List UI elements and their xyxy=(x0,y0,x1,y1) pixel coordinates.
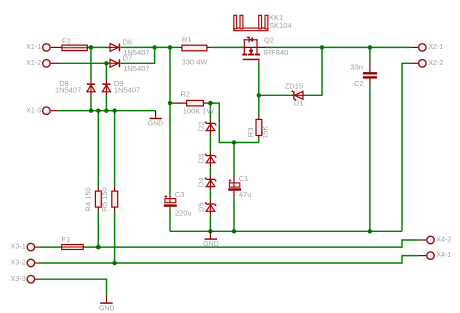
svg-text:1N5407: 1N5407 xyxy=(114,85,140,94)
wire R5 lead top xyxy=(114,187,116,192)
wire X1-2 row to D7 xyxy=(61,62,110,64)
diode D9 xyxy=(102,79,140,95)
wire R1 lead left xyxy=(178,46,182,48)
wire X4-1 pin xyxy=(418,255,426,257)
resistor R4 xyxy=(84,187,102,211)
connector pad X3-1 xyxy=(11,242,35,251)
wire X4-2 pin xyxy=(418,239,426,241)
junction after fuse F2 xyxy=(89,45,94,50)
ground symbol GND middle rail xyxy=(203,231,219,248)
svg-text:X2-1: X2-1 xyxy=(428,42,443,51)
svg-text:47u: 47u xyxy=(239,190,252,199)
junction R2 right / zener chain xyxy=(208,101,213,106)
svg-text:D3: D3 xyxy=(197,154,206,164)
junction chain bottom / GND rail xyxy=(208,229,212,233)
junction R4 on X3-1 rail xyxy=(96,245,101,250)
junction D1 branch on top rail xyxy=(320,45,324,49)
connector pad X3-3 xyxy=(11,274,35,283)
svg-text:X3-2: X3-2 xyxy=(11,258,26,267)
wire R2 lead left xyxy=(170,102,187,104)
connector pad X1-1 xyxy=(26,42,50,51)
wire C2 top lead xyxy=(369,63,371,72)
junction D8 on X1-3 rail xyxy=(89,109,93,113)
connector pad X2-2 xyxy=(419,58,444,67)
ground symbol GND near X3-3 xyxy=(99,296,115,313)
wire R3 bottom lead xyxy=(258,136,260,140)
mosfet Q2 IRF840 xyxy=(242,36,288,61)
zener diode D3 xyxy=(197,154,217,164)
wire C2 bottom lead xyxy=(369,79,371,86)
wire D9 bottom lead xyxy=(105,92,107,96)
wire C1 bottom lead xyxy=(233,191,235,198)
zener diode D5 xyxy=(197,202,217,212)
zener diode D4 xyxy=(197,178,217,188)
capacitor C2 xyxy=(351,62,378,88)
fuse F2 xyxy=(62,37,87,51)
wire D3-D4 link xyxy=(209,163,211,167)
svg-text:SK104: SK104 xyxy=(269,21,292,30)
wire X2-1 pin xyxy=(411,46,419,48)
svg-text:C1: C1 xyxy=(239,174,249,183)
svg-text:33n: 33n xyxy=(351,62,364,71)
svg-text:220u: 220u xyxy=(175,208,192,217)
wire C3 top lead xyxy=(169,196,171,199)
wire C1 to bottom rail xyxy=(233,197,235,231)
svg-text:C3: C3 xyxy=(175,190,185,199)
wire D8 column top xyxy=(90,47,92,80)
svg-text:15K: 15K xyxy=(260,126,269,139)
wire bottom rail y231 xyxy=(170,230,402,232)
resistor R1 xyxy=(182,35,209,67)
wire R5 column top xyxy=(114,111,116,187)
wire top rail D6 cathode to R1 xyxy=(120,46,178,48)
svg-text:R5 150: R5 150 xyxy=(100,187,109,211)
wire R3 bottom to 142-row xyxy=(258,139,260,142)
wire X3-2 rail to X4-1 jog xyxy=(38,256,418,263)
zener diode D2 xyxy=(197,122,217,132)
wire R5 lead bottom xyxy=(114,207,116,212)
wire C1 top lead xyxy=(233,176,235,183)
junction R5 on X1-3 rail xyxy=(112,109,116,113)
wire R4 column bottom xyxy=(97,212,99,248)
svg-text:GND: GND xyxy=(203,241,219,248)
junction R2/C3 column on top rail xyxy=(168,45,172,49)
wire D9 column top xyxy=(105,63,107,80)
wire X2-2 pin xyxy=(411,62,419,64)
wire X3-1 pin xyxy=(35,246,38,248)
wire R4 column top xyxy=(97,111,99,187)
connector pad X1-2 xyxy=(26,58,50,67)
wire column x170 R2 row down to C3 xyxy=(169,103,171,195)
wire zener chain top xyxy=(209,103,211,119)
svg-text:X1-3: X1-3 xyxy=(26,105,41,114)
wire D2 top lead xyxy=(209,120,211,123)
wire C3 bottom lead xyxy=(169,207,171,211)
wire D1 cathode lead xyxy=(303,94,306,96)
polarized capacitor C1 xyxy=(228,174,251,199)
wire R5 column bottom xyxy=(114,212,116,263)
svg-text:R1: R1 xyxy=(182,35,192,44)
junction D9 on X1-3 rail xyxy=(104,109,108,113)
wire C2 column from top rail xyxy=(369,47,371,62)
wire R4 lead top xyxy=(97,187,99,192)
wire D5 bottom to rail xyxy=(209,211,211,215)
svg-text:R4 150: R4 150 xyxy=(84,187,93,211)
svg-text:X4-1: X4-1 xyxy=(436,250,451,259)
resistor R2 xyxy=(181,90,215,116)
connector pad X3-2 xyxy=(11,258,35,267)
junction C2 on top rail xyxy=(368,45,372,49)
diode D6 xyxy=(110,38,149,57)
svg-text:X3-1: X3-1 xyxy=(11,242,26,251)
svg-text:D4: D4 xyxy=(197,178,206,188)
svg-text:IRF840: IRF840 xyxy=(264,48,289,57)
connector pad X4-2 xyxy=(427,235,452,244)
diode D8 xyxy=(55,79,95,95)
ground symbol GND near X1-3 xyxy=(148,111,164,128)
heatsink KK1 SK104 xyxy=(234,13,292,31)
svg-text:GND: GND xyxy=(148,121,164,128)
wire D1 to corner up to top rail xyxy=(306,47,322,95)
wire D2-D3 link xyxy=(209,131,211,135)
wire C2 to bottom rail xyxy=(369,86,371,231)
svg-text:X1-1: X1-1 xyxy=(26,42,41,51)
svg-text:F2: F2 xyxy=(62,37,71,46)
wire X3-2 pin xyxy=(35,262,38,264)
wire D1 anode lead xyxy=(291,94,293,96)
wire X1-3 pin xyxy=(51,110,57,112)
wire D8 to X1-3 rail xyxy=(90,95,92,110)
wire R4 lead bottom xyxy=(97,207,99,212)
wire node to R3 top xyxy=(258,95,260,115)
svg-text:D1: D1 xyxy=(294,98,304,107)
svg-text:R3: R3 xyxy=(246,128,255,138)
junction C1 bottom rail xyxy=(232,229,236,233)
wire node to D1 anode xyxy=(259,94,291,96)
connector pad X4-1 xyxy=(427,250,452,259)
wire D9 to X1-3 rail xyxy=(105,95,107,110)
junction R2 left xyxy=(168,101,172,105)
wire X3-3 pin xyxy=(35,278,38,280)
svg-text:100K 1W: 100K 1W xyxy=(183,107,215,116)
wire Q2 to X2-1 xyxy=(266,46,411,48)
junction C1 top xyxy=(232,140,236,144)
wire Q2 gate drop red xyxy=(258,60,260,63)
svg-text:X4-2: X4-2 xyxy=(436,235,451,244)
wire R2 lead right xyxy=(203,102,210,104)
wire X1-1 pin to fuse xyxy=(51,46,62,48)
wire C1 column top xyxy=(233,143,235,176)
svg-text:D6: D6 xyxy=(123,38,133,47)
polarized capacitor C3 xyxy=(164,190,192,217)
connector pad X1-3 xyxy=(26,105,50,114)
junction D7 branch on top rail xyxy=(152,45,156,49)
wire X1-2 pin xyxy=(51,62,61,64)
svg-text:1N5407: 1N5407 xyxy=(123,64,149,73)
wire D8 bottom lead xyxy=(90,92,92,96)
svg-text:D2: D2 xyxy=(197,122,206,132)
resistor R3 xyxy=(246,119,269,139)
junction R5 on X3-2 rail xyxy=(112,261,116,265)
connector pad X2-1 xyxy=(419,42,444,51)
wire R2 right dot to corner down xyxy=(210,103,258,142)
svg-text:X1-2: X1-2 xyxy=(26,58,41,67)
wire F1 to X4-2 jog xyxy=(83,240,418,247)
junction R4 on X1-3 rail xyxy=(96,109,100,113)
wire vertical column x170 top rail to R2 row xyxy=(169,47,171,103)
svg-text:D7: D7 xyxy=(123,53,133,62)
svg-text:R2: R2 xyxy=(181,90,191,99)
svg-text:C2: C2 xyxy=(354,79,364,88)
resistor R5 xyxy=(100,187,118,211)
wire D4-D5 link xyxy=(209,187,211,191)
node gate/D1/R3 xyxy=(257,93,261,97)
wire red through Q2 xyxy=(244,46,265,48)
wire R1 lead right xyxy=(207,46,211,48)
wire D8 anode lead xyxy=(90,80,92,84)
wire D9 anode lead xyxy=(105,80,107,84)
svg-text:1N5407: 1N5407 xyxy=(55,85,81,94)
svg-text:X3-3: X3-3 xyxy=(11,274,26,283)
svg-text:330 4W: 330 4W xyxy=(182,57,209,66)
wire R1 to Q2 gate-rail xyxy=(211,46,245,48)
svg-text:Q2: Q2 xyxy=(264,36,274,45)
fuse F1 xyxy=(62,235,84,249)
junction C2 bottom rail xyxy=(368,229,372,233)
wire X3-1 to fuse F1 xyxy=(38,246,62,248)
wire top rail from fuse F2 to D6 anode xyxy=(87,46,110,48)
wire X2-2 to drop corner xyxy=(402,63,411,231)
diode D7 xyxy=(110,53,149,73)
junction D9 on X1-2 wire xyxy=(104,61,108,65)
svg-text:D5: D5 xyxy=(197,202,206,212)
svg-text:X2-2: X2-2 xyxy=(428,58,443,67)
zener diode D1 ZD15 xyxy=(285,81,304,107)
svg-text:GND: GND xyxy=(99,305,115,312)
wire X1-3 rail to GND xyxy=(57,110,156,112)
wire D7 cathode to corner up to top rail xyxy=(120,47,154,63)
wire C3 to bottom rail xyxy=(169,211,171,232)
wire Q2 gate drop to node xyxy=(258,63,260,96)
svg-text:ZD15: ZD15 xyxy=(285,81,303,90)
wire X3-3 row to GND corner xyxy=(38,279,106,296)
wire R3 top lead xyxy=(258,116,260,120)
svg-text:F1: F1 xyxy=(62,235,71,244)
